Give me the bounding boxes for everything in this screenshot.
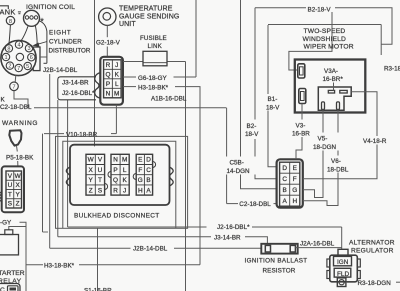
wire J row through fusible link (123, 61, 186, 63)
svg-text:TEMPERATURE: TEMPERATURE (119, 6, 173, 13)
wire C2 mid (227, 203, 238, 205)
svg-text:8: 8 (9, 19, 12, 25)
wire J2B bottom (50, 247, 131, 249)
bulkhead grid W-S (86, 154, 105, 195)
lamp warning (2, 120, 38, 127)
net C2-18-DBL (mid) (239, 201, 271, 208)
wire distributor to 7 (14, 75, 17, 82)
wire V3A (333, 83, 335, 91)
wire coil to side terminal (35, 25, 37, 47)
wire C5B vertical (241, 0, 277, 189)
svg-text:18-V: 18-V (266, 105, 280, 112)
svg-text:C2-18-DBL: C2-18-DBL (239, 201, 271, 208)
wire J2B vertical (49, 74, 51, 248)
svg-text:X: X (89, 167, 94, 174)
svg-text:D: D (146, 157, 151, 164)
ignition coil (24, 10, 40, 26)
svg-text:J2-16-DBL*: J2-16-DBL* (62, 90, 95, 97)
svg-text:16-BR*: 16-BR* (323, 76, 344, 83)
svg-text:STARTER: STARTER (0, 270, 25, 277)
switch plate (318, 87, 351, 110)
svg-text:RELAY: RELAY (0, 278, 22, 285)
wire A1B vertical (199, 87, 201, 265)
wire H3 bottom (25, 227, 27, 291)
svg-text:REGULATOR: REGULATOR (351, 247, 394, 254)
svg-text:V6-: V6- (331, 158, 341, 165)
net V6-18-DBL (325, 156, 354, 173)
wire J3 bottom (58, 236, 211, 238)
connector motor 1 (298, 64, 306, 104)
svg-text:Y: Y (15, 191, 20, 198)
svg-text:IGNITION BALLAST: IGNITION BALLAST (245, 257, 308, 264)
svg-text:A: A (283, 198, 288, 205)
net G6-18-GY (0, 75, 187, 139)
svg-text:7: 7 (17, 66, 20, 72)
wire enclosure left / B1 (268, 25, 277, 167)
svg-text:16-BR: 16-BR (292, 131, 310, 138)
svg-text:B1-: B1- (268, 96, 278, 103)
svg-text:FLD: FLD (337, 271, 349, 278)
svg-text:BULKHEAD DISCONNECT: BULKHEAD DISCONNECT (74, 212, 160, 219)
svg-text:J: J (123, 187, 126, 194)
svg-text:S1-16-BR: S1-16-BR (84, 288, 112, 291)
svg-text:M: M (122, 157, 127, 164)
wire J3 vertical (57, 100, 59, 237)
svg-text:C: C (0, 287, 5, 291)
svg-text:R: R (113, 187, 118, 194)
wire motor feed (289, 8, 332, 70)
svg-text:S: S (8, 201, 12, 208)
net J2A-16-DBL (245, 240, 335, 274)
svg-text:H3-18-BK*: H3-18-BK* (138, 84, 169, 91)
wire to relay (9, 222, 26, 230)
svg-text:FUSIBLE: FUSIBLE (140, 35, 167, 42)
svg-text:H3-18-BK*: H3-18-BK* (44, 262, 75, 269)
svg-text:UNIT: UNIT (119, 21, 136, 28)
svg-text:Z: Z (16, 201, 20, 208)
svg-text:6: 6 (30, 55, 33, 61)
svg-text:ANK: ANK (0, 8, 16, 17)
wire V6 (303, 110, 338, 206)
svg-text:Q: Q (105, 71, 110, 78)
svg-text:E: E (138, 157, 142, 164)
wire side terminal (40, 56, 47, 58)
svg-text:H: H (292, 198, 297, 205)
net B2-18-V (mid) (243, 120, 265, 140)
temperature gauge sending unit (99, 8, 116, 25)
node dash-panel outer box (56, 136, 188, 228)
svg-text:V: V (98, 157, 103, 164)
svg-text:E: E (293, 165, 297, 172)
svg-text:P5-18-BK: P5-18-BK (6, 155, 34, 162)
wire H3/x223 vertical (226, 108, 228, 204)
wire V4 (303, 92, 377, 179)
svg-text:R3-18-: R3-18- (384, 66, 400, 73)
net V3-16-BR (290, 120, 313, 137)
alternator regulator (327, 249, 360, 286)
wire V5 (303, 110, 323, 198)
svg-text:S: S (98, 187, 102, 194)
svg-text:5: 5 (26, 64, 29, 70)
connector motor 2 (299, 89, 306, 104)
wire R3 (346, 281, 355, 283)
bulkhead grid E-A (136, 154, 152, 195)
net H3-18-BK* (bottom) (1, 97, 113, 291)
svg-text:L: L (123, 167, 127, 174)
resistor ignition ballast (261, 244, 297, 254)
svg-text:D: D (282, 165, 287, 172)
net J2-16-DBL* (bottom) (133, 224, 250, 253)
wire label arrow (34, 42, 47, 47)
svg-text:P: P (113, 167, 117, 174)
svg-text:B: B (283, 187, 287, 194)
svg-text:W: W (88, 157, 95, 164)
wire B2 vertical (255, 8, 277, 179)
wire J2 bottom (68, 226, 207, 228)
net V4-18-R (361, 136, 392, 145)
svg-text:1: 1 (4, 55, 7, 61)
svg-text:Y: Y (89, 177, 94, 184)
wire circle8 to distributor (9, 25, 11, 45)
svg-text:T: T (98, 177, 102, 184)
svg-text:C: C (146, 167, 151, 174)
wire J2 vertical (67, 100, 69, 227)
connector grid D-H (280, 162, 300, 206)
wire V10 vertical (42, 134, 44, 232)
svg-text:K: K (1, 97, 6, 104)
svg-text:C2-18-DBL: C2-18-DBL (0, 104, 32, 111)
connector grid R-M (104, 60, 122, 98)
svg-text:B: B (146, 177, 150, 184)
svg-text:WARNING: WARNING (2, 120, 38, 127)
fusible link (140, 35, 167, 50)
connector (engine side V-Z) (2, 166, 24, 212)
svg-text:RESISTOR: RESISTOR (263, 267, 296, 274)
svg-text:8: 8 (7, 46, 10, 52)
svg-text:WINDSHIELD: WINDSHIELD (303, 36, 347, 43)
wire coil to J2B (39, 21, 47, 64)
net V5-18-DGN (311, 133, 341, 151)
net G2-18-V (96, 39, 121, 46)
bulkhead grid N-J (111, 154, 129, 195)
wire G6 vertical to top (195, 0, 197, 77)
svg-text:14-DGN: 14-DGN (227, 168, 251, 175)
svg-text:GAUGE SENDING: GAUGE SENDING (119, 13, 179, 20)
svg-text:K: K (123, 177, 128, 184)
svg-text:TWO-SPEED: TWO-SPEED (304, 28, 346, 35)
svg-text:18-DGN: 18-DGN (313, 144, 337, 151)
wire mid vertical x93 (94, 0, 96, 146)
svg-text:7: 7 (12, 85, 15, 91)
net R3-18-DGN (358, 280, 392, 287)
circle 8 terminal (6, 16, 14, 24)
svg-text:C5B-: C5B- (230, 159, 244, 166)
svg-text:J2-16-DBL*: J2-16-DBL* (217, 224, 250, 231)
wire H3 top (123, 86, 136, 88)
svg-text:Q: Q (113, 177, 118, 184)
svg-text:F: F (138, 167, 142, 174)
wire G2 stem (106, 25, 108, 37)
svg-text:18-DBL: 18-DBL (327, 167, 349, 174)
svg-text:U: U (8, 182, 13, 189)
svg-text:LINK: LINK (148, 43, 163, 50)
circle 7 terminal (10, 82, 19, 91)
svg-text:CYLINDER: CYLINDER (49, 39, 82, 46)
net B2-18-V (top) (306, 3, 400, 73)
svg-text:V10-18-BR: V10-18-BR (66, 132, 98, 139)
wire G6 (123, 76, 136, 78)
svg-text:V5-: V5- (318, 135, 328, 142)
distributor U1 (eight cylinder) (1, 40, 36, 75)
svg-text:J3-14-BR: J3-14-BR (62, 79, 89, 86)
svg-text:M: M (114, 90, 119, 97)
net B1-18-V (265, 94, 286, 111)
svg-text:B2-18-V: B2-18-V (308, 7, 332, 14)
connector bulkhead disconnect body (70, 145, 170, 205)
svg-text:J3-14-BR: J3-14-BR (214, 234, 241, 241)
svg-text:2: 2 (8, 64, 11, 70)
svg-text:*: * (40, 16, 44, 26)
svg-text:3: 3 (27, 46, 30, 52)
svg-text:L: L (115, 81, 119, 88)
svg-text:R3-18-DGN: R3-18-DGN (358, 280, 392, 287)
svg-text:R: R (106, 62, 111, 69)
svg-text:J: J (115, 62, 118, 69)
connector grid V-Z (6, 171, 22, 208)
svg-text:G6-18-GY: G6-18-GY (138, 75, 167, 82)
wire resistor to J2A (295, 247, 341, 249)
wire V10 (44, 133, 64, 135)
svg-text:V3A-: V3A- (324, 68, 338, 75)
svg-text:IGN: IGN (337, 259, 349, 266)
svg-text:V4-18-R: V4-18-R (363, 138, 387, 145)
svg-text:J2B-14-DBL: J2B-14-DBL (43, 67, 78, 74)
svg-text:V3-: V3- (296, 122, 306, 129)
svg-text:DISTRIBUTOR: DISTRIBUTOR (49, 48, 91, 55)
svg-text:IGNITION COIL: IGNITION COIL (26, 4, 75, 11)
svg-text:P: P (106, 81, 110, 88)
svg-text:A1B-16-DBL: A1B-16-DBL (151, 95, 187, 102)
net J3-14-BR (top) (62, 79, 95, 97)
svg-text:G: G (138, 177, 143, 184)
svg-text:Z: Z (89, 187, 93, 194)
svg-text:G2-18-V: G2-18-V (96, 39, 121, 46)
net J2B-14-DBL (top) (43, 67, 78, 74)
wire V3 (301, 104, 303, 120)
wire harness bracket (58, 77, 96, 100)
svg-text:B2-: B2- (247, 123, 257, 130)
connector (dash side R-M) (100, 57, 123, 105)
svg-text:N: N (106, 90, 111, 97)
svg-text:J2A-16-DBL: J2A-16-DBL (300, 240, 335, 247)
svg-text:WIPER MOTOR: WIPER MOTOR (304, 44, 354, 51)
wire 7 to C2 line (14, 91, 28, 108)
wire fusible link down (185, 62, 187, 291)
svg-text:18-V: 18-V (245, 131, 259, 138)
wire V3 to connector (296, 137, 302, 159)
svg-text:G6-18-GY: G6-18-GY (0, 220, 12, 227)
net P5-18-BK (6, 155, 34, 162)
distributor side terminal (33, 47, 40, 71)
svg-text:4: 4 (17, 43, 20, 49)
svg-text:N: N (113, 157, 118, 164)
wire coil to cap (21, 26, 28, 41)
net G6-18-GY (left, cut) (0, 220, 12, 227)
node CRANK stub (cut at edge) (0, 6, 8, 9)
wire B2 top (255, 8, 392, 45)
connector (engine side D-H) (277, 159, 303, 207)
svg-text:X: X (15, 182, 20, 189)
svg-text:ALTERNATOR: ALTERNATOR (349, 239, 395, 246)
svg-text:T: T (8, 191, 12, 198)
svg-text:EIGHT: EIGHT (49, 30, 71, 37)
svg-text:U: U (98, 167, 103, 174)
svg-text:C: C (282, 176, 287, 183)
svg-text:J2B-14-DBL: J2B-14-DBL (133, 246, 168, 253)
wire C2 left (34, 107, 226, 109)
starter relay (0, 230, 20, 291)
net C5B-14-DGN (225, 157, 260, 175)
svg-text:A: A (146, 187, 151, 194)
svg-text:F: F (293, 176, 297, 183)
svg-text:H: H (138, 187, 143, 194)
node dash-panel inner box (63, 141, 176, 228)
svg-text:W: W (15, 173, 22, 180)
wire bottom vertical x98 (97, 228, 99, 291)
bulkhead alignment bumps (105, 162, 156, 190)
wire enclosure top (268, 24, 381, 26)
wire lamp to connector (16, 146, 19, 152)
svg-text:G: G (292, 187, 297, 194)
svg-text:K: K (115, 71, 120, 78)
svg-text:V: V (8, 173, 13, 180)
wiper motor box (295, 60, 366, 113)
